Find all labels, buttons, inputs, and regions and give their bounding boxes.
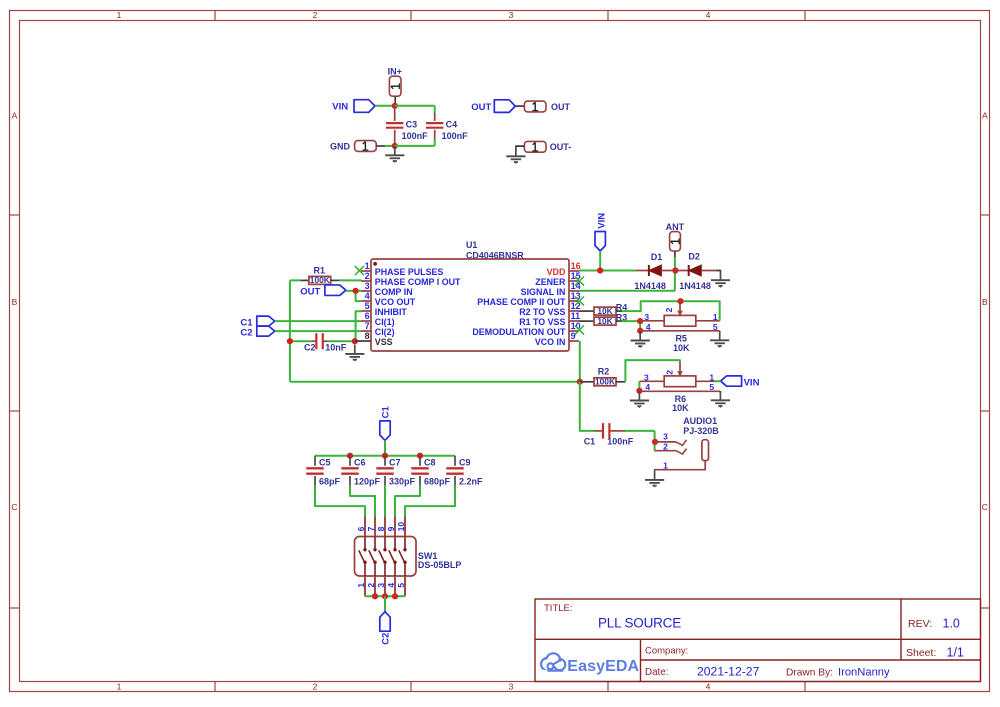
junction R5 pin4 / ground	[637, 328, 643, 334]
wire junction to C4 bottom	[395, 139, 435, 146]
SW1 pole 5 contacts	[399, 537, 407, 577]
svg-text:10nF: 10nF	[325, 343, 347, 353]
svg-text:11: 11	[571, 311, 581, 321]
svg-text:ZENER: ZENER	[535, 277, 566, 287]
capacitor C8 680pF	[411, 456, 450, 487]
svg-text:D1: D1	[651, 252, 663, 262]
svg-text:C: C	[11, 502, 17, 512]
U1 pin 11 lead	[569, 320, 579, 322]
ground right of R6	[711, 391, 730, 408]
wire bus to C2 flag	[384, 596, 386, 611]
svg-text:100nF: 100nF	[442, 131, 469, 141]
wire C9 to SW1 pin 10	[405, 486, 455, 517]
U1 pin 9 name VCO IN	[535, 337, 566, 347]
junction GND / C3 bottom	[392, 143, 398, 149]
svg-text:330pF: 330pF	[389, 476, 416, 486]
ground at AUDIO1 pin 1	[645, 471, 664, 488]
wire C2 flag to U1 pin 7	[275, 330, 362, 332]
junction D1 / D2 / ANT	[672, 267, 678, 273]
svg-text:A: A	[12, 110, 18, 120]
wire R2 to R6 wiper	[625, 360, 680, 382]
svg-text:100K: 100K	[310, 275, 330, 285]
net flag C1 (left)	[240, 316, 274, 328]
wire C8 to SW1 pin 9	[395, 486, 420, 517]
SW1 pin 2 stub + number	[366, 576, 376, 596]
svg-text:100nF: 100nF	[607, 437, 634, 447]
svg-text:4: 4	[706, 682, 711, 692]
capacitor C4 100nF	[426, 113, 468, 141]
svg-text:IN+: IN+	[388, 67, 402, 77]
U1 pin 7 name CI(2)	[375, 327, 395, 337]
svg-text:5: 5	[365, 301, 370, 311]
U1 pin 12 name R2 TO VSS	[519, 307, 565, 317]
svg-text:2.2nF: 2.2nF	[459, 476, 483, 486]
wire D2 cathode to ground	[716, 270, 721, 273]
capacitor C9 2.2nF	[446, 456, 483, 487]
U1 pin 5 lead	[361, 310, 371, 312]
svg-text:A: A	[982, 110, 988, 120]
svg-text:SIGNAL IN: SIGNAL IN	[521, 287, 566, 297]
svg-text:B: B	[12, 297, 18, 307]
U1 pin 11 name R1 TO VSS	[519, 317, 565, 327]
U1 pin 13 name PHASE COMP II OUT	[477, 297, 566, 307]
svg-text:R1 TO VSS: R1 TO VSS	[519, 317, 565, 327]
title block	[535, 599, 981, 682]
U1 pin 15 name ZENER	[535, 277, 566, 287]
resistor R4 10K	[579, 302, 627, 315]
U1 pin 1 lead	[361, 270, 371, 272]
U1 pin 14 name SIGNAL IN	[521, 287, 566, 297]
wire R6 pin3 down to pin4/ground	[638, 381, 640, 391]
connector OUT pin 1	[524, 101, 570, 112]
no-connect X on U1 pin 1	[355, 266, 364, 275]
svg-text:2: 2	[664, 370, 674, 375]
wire C6 to SW1 pin 7	[350, 486, 375, 517]
U1 pin 4 number	[365, 291, 370, 301]
svg-text:VCO OUT: VCO OUT	[375, 297, 416, 307]
EasyEDA logo	[540, 653, 640, 676]
U1 pin 7 lead	[361, 330, 371, 332]
SW1 pin 10 stub + number	[396, 517, 406, 537]
U1 pin 13 lead	[569, 300, 579, 302]
no-connect X on U1 pin 10	[575, 325, 584, 334]
wire GND to junction	[385, 145, 395, 147]
svg-text:1: 1	[117, 10, 122, 20]
junction OUT / pin3 / pin4	[353, 288, 359, 294]
wire OUT flag to pin 3 and pin 4	[346, 291, 362, 301]
svg-text:3: 3	[365, 281, 370, 291]
svg-text:PJ-320B: PJ-320B	[683, 426, 719, 436]
wire junction to C4 top	[395, 106, 435, 114]
svg-text:OUT: OUT	[551, 102, 571, 112]
svg-text:C2: C2	[380, 633, 391, 645]
capacitor C5 68pF	[306, 456, 340, 487]
U1 pin 3 number	[365, 281, 370, 291]
svg-text:PHASE COMP I OUT: PHASE COMP I OUT	[375, 277, 461, 287]
svg-text:12: 12	[571, 301, 581, 311]
svg-text:14: 14	[571, 281, 581, 291]
svg-text:C8: C8	[424, 457, 436, 467]
junction bus at C6	[347, 453, 353, 459]
junction R6 pin4 / ground	[636, 388, 642, 394]
svg-text:PHASE COMP II OUT: PHASE COMP II OUT	[477, 297, 566, 307]
connector OUT- pin 1	[524, 141, 571, 152]
SW1 pin 6 stub + number	[356, 517, 366, 537]
port flag VIN (right)	[721, 376, 760, 388]
SW1 pin 7 stub + number	[366, 517, 376, 537]
junction R5 wiper	[677, 298, 683, 304]
svg-text:COMP IN: COMP IN	[375, 287, 413, 297]
svg-text:1.0: 1.0	[943, 617, 960, 631]
wire OUT- to ground	[516, 145, 525, 148]
svg-text:GND: GND	[330, 141, 351, 151]
svg-text:Company:: Company:	[645, 646, 688, 657]
U1 pin 12 lead	[569, 310, 579, 312]
svg-text:10K: 10K	[597, 316, 612, 326]
svg-text:2021-12-27: 2021-12-27	[697, 665, 760, 679]
svg-text:1N4148: 1N4148	[634, 281, 666, 291]
svg-text:10K: 10K	[672, 403, 689, 413]
svg-text:B: B	[982, 297, 988, 307]
SW1 pin 9 stub + number	[386, 517, 396, 537]
svg-text:9: 9	[386, 526, 396, 531]
wire C7 to SW1 pin 8	[384, 486, 386, 517]
svg-text:PHASE PULSES: PHASE PULSES	[375, 267, 444, 277]
U1 pin 4 lead	[361, 300, 371, 302]
svg-text:2: 2	[313, 682, 318, 692]
U1 pin 8 lead	[361, 340, 371, 342]
svg-text:9: 9	[571, 331, 576, 341]
junction bus at C8	[417, 453, 423, 459]
svg-text:VIN: VIN	[332, 102, 348, 113]
svg-text:Date:: Date:	[645, 667, 668, 678]
diode D1 1N4148	[634, 252, 675, 291]
svg-text:7: 7	[365, 321, 370, 331]
svg-text:DS-05BLP: DS-05BLP	[418, 560, 462, 570]
U1 pin 13 number	[571, 291, 581, 301]
U1 pin 6 lead	[361, 320, 371, 322]
svg-text:INHIBIT: INHIBIT	[375, 307, 408, 317]
svg-text:7: 7	[366, 526, 376, 531]
wire capacitor bank top bus	[315, 455, 455, 457]
wire U1 pin 9 down to R2 junction	[579, 341, 581, 382]
svg-text:C1: C1	[380, 406, 391, 419]
U1 pin 11 number	[571, 311, 581, 321]
svg-text:R5: R5	[675, 333, 687, 343]
junction R3 / R5 pin3	[637, 318, 643, 324]
svg-text:5: 5	[396, 583, 406, 588]
port flag OUT (top)	[471, 100, 515, 113]
potentiometer R5 10K	[640, 302, 720, 354]
SW1 pin 1 stub + number	[356, 576, 366, 596]
U1 pin 2 lead	[361, 280, 371, 282]
svg-text:68pF: 68pF	[319, 476, 341, 486]
connector ANT pin 1	[666, 222, 685, 257]
U1 pin 5 name INHIBIT	[375, 307, 408, 317]
U1 pin 7 number	[365, 321, 370, 331]
SW1 pole 4 contacts	[389, 537, 397, 577]
U1 pin 16 lead	[569, 270, 579, 272]
svg-text:2: 2	[664, 307, 674, 312]
svg-text:6: 6	[356, 526, 366, 531]
svg-text:OUT: OUT	[300, 286, 320, 297]
net flag VIN (rotated, at VDD)	[595, 213, 608, 251]
svg-text:3: 3	[509, 682, 514, 692]
resistor R3 10K	[579, 313, 627, 326]
svg-text:C5: C5	[319, 457, 331, 467]
svg-text:C2: C2	[304, 343, 316, 353]
SW1 pin 4 stub + number	[386, 576, 396, 596]
capacitor C7 330pF	[376, 456, 415, 487]
SW1 pole 3 contacts	[379, 537, 387, 577]
junction bus at C7	[382, 453, 388, 459]
svg-text:1: 1	[365, 261, 370, 271]
svg-text:4: 4	[365, 291, 370, 301]
svg-text:680pF: 680pF	[424, 476, 451, 486]
wire R4 to R5 pin 1 via wiper rail	[622, 301, 720, 321]
svg-text:10K: 10K	[597, 306, 612, 316]
capacitor C2 10nF	[304, 333, 347, 352]
U1 pin 4 name VCO OUT	[375, 297, 416, 307]
SW1 pin 3 stub + number	[376, 576, 386, 596]
svg-text:PLL SOURCE: PLL SOURCE	[598, 616, 681, 631]
svg-text:Drawn By:: Drawn By:	[786, 668, 833, 679]
svg-text:3: 3	[376, 583, 386, 588]
junction audio pin 3	[652, 439, 658, 445]
svg-text:DEMODULATION OUT: DEMODULATION OUT	[472, 327, 566, 337]
audio jack AUDIO1 PJ-320B	[655, 416, 720, 471]
svg-text:C3: C3	[406, 119, 418, 129]
wire R1 right to U1 pin 2	[339, 279, 361, 281]
wire U1 pin 16 VDD to D1	[579, 270, 636, 272]
svg-text:VDD: VDD	[547, 267, 566, 277]
wire R2 junction down to C1	[580, 382, 595, 431]
potentiometer R6 10K	[639, 362, 720, 413]
junction VDD / VIN	[597, 267, 603, 273]
U1 pin 8 number	[365, 331, 370, 341]
svg-text:CI(1): CI(1)	[375, 317, 395, 327]
junction C2 / R1 bus	[287, 338, 293, 344]
svg-text:R2 TO VSS: R2 TO VSS	[519, 307, 565, 317]
svg-text:3: 3	[509, 10, 514, 20]
svg-text:R1: R1	[314, 266, 326, 276]
port flag OUT (left, to pin 3)	[300, 285, 346, 297]
wire VIN flag to VDD junction	[599, 251, 601, 271]
svg-text:OUT-: OUT-	[550, 142, 572, 152]
port flag VIN (top)	[332, 100, 375, 113]
SW1 pin 5 stub + number	[396, 576, 406, 596]
SW1 pin 8 stub + number	[376, 517, 386, 537]
U1 pin 12 number	[571, 301, 581, 311]
net flag C1 (cap bank top)	[380, 406, 392, 441]
capacitor C3 100nF	[386, 107, 428, 146]
resistor R1 100K	[300, 266, 339, 286]
U1 pin 5 number	[365, 301, 370, 311]
svg-text:U1: U1	[466, 240, 477, 250]
svg-text:D2: D2	[688, 252, 700, 262]
junction bottom bus pin 4	[392, 593, 398, 599]
U1 pin 16 number	[571, 261, 581, 271]
svg-text:1: 1	[663, 460, 668, 470]
U1 pin 10 lead	[569, 330, 579, 332]
svg-text:C2: C2	[240, 327, 252, 338]
svg-text:CI(2): CI(2)	[375, 327, 395, 337]
switch SW1 DS-05BLP body	[355, 537, 462, 577]
U1 pin 9 lead	[569, 340, 579, 342]
svg-text:IronNanny: IronNanny	[838, 667, 890, 679]
svg-text:TITLE:: TITLE:	[544, 603, 573, 614]
svg-text:2: 2	[366, 583, 376, 588]
svg-text:10: 10	[396, 522, 406, 532]
resistor R2 100K	[580, 366, 626, 386]
U1 pin 1 name PHASE PULSES	[375, 267, 444, 277]
wire C1 flag to U1 pin 6	[275, 320, 362, 322]
U1 pin 9 number	[571, 331, 576, 341]
U1 pin 15 lead	[569, 280, 579, 282]
ground at OUT-	[506, 147, 525, 164]
wire C1 to audio jack pins 3/2	[625, 431, 655, 451]
SW1 pole 2 contacts	[369, 537, 377, 577]
wire VIN flag to C3 top	[375, 105, 395, 107]
svg-text:4: 4	[386, 583, 396, 588]
net flag C2 (left)	[240, 326, 274, 338]
op IC U1 CD4046BNSR body	[371, 240, 569, 351]
U1 pin 2 number	[365, 271, 370, 281]
svg-text:1: 1	[117, 682, 122, 692]
U1 pin 3 name COMP IN	[375, 287, 413, 297]
svg-text:120pF: 120pF	[354, 476, 381, 486]
junction C2 / pin5 / pin8 / ground	[352, 338, 358, 344]
svg-text:3: 3	[663, 432, 668, 442]
wire switch bottom bus	[365, 595, 405, 597]
U1 pin 14 number	[571, 281, 581, 291]
svg-text:C6: C6	[354, 457, 366, 467]
junction bottom bus pin 2	[372, 593, 378, 599]
U1 pin 3 lead	[361, 290, 371, 292]
svg-text:1: 1	[356, 583, 366, 588]
wire U1 pin 5 down to C2 junction	[356, 311, 362, 341]
svg-text:VCO IN: VCO IN	[535, 337, 566, 347]
SW1 pole 1 contacts	[359, 537, 367, 577]
capacitor C1 100nF (coupling)	[584, 423, 634, 446]
wire C1 flag stem to bus	[384, 440, 386, 455]
U1 pin 14 lead	[569, 290, 579, 292]
svg-text:10K: 10K	[673, 343, 690, 353]
svg-text:C: C	[982, 502, 988, 512]
connector IN+ pin 1	[388, 67, 402, 103]
net flag C2 (bottom)	[380, 612, 392, 645]
ground below GND junction	[385, 146, 404, 163]
U1 pin 1 number	[365, 261, 370, 271]
svg-text:Sheet:: Sheet:	[906, 647, 936, 659]
U1 pin 8 name VSS	[375, 337, 393, 347]
svg-text:ANT: ANT	[666, 222, 685, 232]
wire demodulation bus to R2	[290, 381, 580, 383]
wire ANT to junction and down to pin 14	[579, 257, 675, 291]
svg-text:C1: C1	[584, 437, 596, 447]
connector GND pin 1	[330, 141, 385, 152]
svg-text:C9: C9	[459, 457, 471, 467]
svg-text:C7: C7	[389, 457, 401, 467]
ground left of R6	[630, 391, 649, 408]
svg-text:100nF: 100nF	[402, 131, 429, 141]
svg-text:1/1: 1/1	[947, 646, 964, 660]
svg-text:100K: 100K	[595, 377, 615, 387]
svg-text:4: 4	[706, 10, 711, 20]
U1 pin 15 number	[571, 271, 581, 281]
svg-text:8: 8	[365, 331, 370, 341]
no-connect X on U1 pin 15	[575, 276, 584, 285]
U1 pin 6 number	[365, 311, 370, 321]
U1 pin 16 name VDD	[547, 267, 566, 277]
wire OUT flag to connector	[515, 105, 524, 107]
svg-text:C4: C4	[446, 119, 458, 129]
svg-text:VSS: VSS	[375, 337, 393, 347]
U1 pin 6 name CI(1)	[375, 317, 395, 327]
wire R6 pin1 to VIN flag	[714, 380, 721, 382]
svg-text:2: 2	[313, 10, 318, 20]
wire R3 to R5 pin 3	[622, 321, 641, 331]
wire C2 right lead to pin8 junction	[328, 340, 355, 342]
junction R2 / pin9 / C1	[577, 379, 583, 385]
svg-text:6: 6	[365, 311, 370, 321]
svg-text:AUDIO1: AUDIO1	[683, 416, 717, 426]
svg-text:1N4148: 1N4148	[679, 281, 711, 291]
wire U1 pin 8 VSS	[355, 340, 362, 342]
svg-text:R2: R2	[598, 366, 610, 376]
junction VIN / IN+ / C3	[392, 103, 398, 109]
U1 pin 10 name DEMODULATION OUT	[472, 327, 566, 337]
diode D2 1N4148	[675, 252, 716, 291]
ground left of R5	[631, 331, 650, 348]
wire C5 to SW1 pin 6	[315, 486, 365, 517]
svg-text:EasyEDA: EasyEDA	[567, 658, 639, 675]
svg-text:OUT: OUT	[471, 102, 491, 113]
svg-text:REV:: REV:	[908, 618, 932, 630]
wire R1 left down to demodulation bus	[290, 280, 300, 381]
ground below C2 junction	[345, 345, 364, 362]
U1 pin 10 number	[571, 321, 581, 331]
ground right of R5	[710, 331, 729, 348]
U1 pin 2 name PHASE COMP I OUT	[375, 277, 461, 287]
junction bottom bus pin 3	[382, 593, 388, 599]
capacitor C6 120pF	[341, 456, 380, 487]
svg-text:8: 8	[376, 526, 386, 531]
svg-text:2: 2	[365, 271, 370, 281]
no-connect X on U1 pin 13	[575, 296, 584, 305]
wire C2 left lead	[290, 340, 311, 342]
svg-text:VIN: VIN	[744, 377, 760, 388]
svg-text:VIN: VIN	[597, 213, 608, 229]
ground at D2 cathode	[711, 271, 730, 288]
